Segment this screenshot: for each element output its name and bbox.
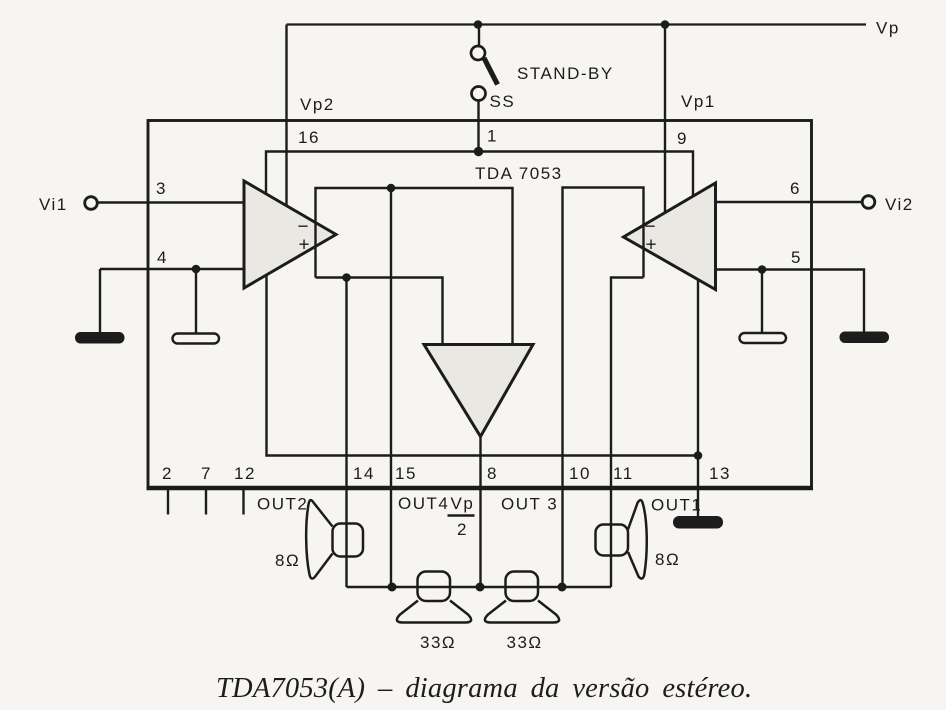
- svg-text:OUT2: OUT2: [257, 495, 308, 514]
- capacitor C1: [195, 269, 197, 334]
- svg-text:12: 12: [234, 464, 256, 483]
- node ground bus / pin 13: [694, 451, 703, 460]
- svg-text:TDA 7053: TDA 7053: [475, 164, 563, 183]
- wire pin4 to ground G1: [99, 269, 101, 333]
- svg-text:1: 1: [487, 127, 498, 146]
- node pin4 / C1 junction: [192, 265, 201, 274]
- svg-text:11: 11: [613, 464, 634, 483]
- wire U2 ground to pin 13: [697, 280, 699, 518]
- svg-text:7: 7: [201, 464, 212, 483]
- svg-text:33Ω: 33Ω: [420, 633, 456, 652]
- wire internal ground bus: [267, 276, 699, 456]
- svg-text:SS: SS: [490, 92, 516, 111]
- svg-text:8Ω: 8Ω: [655, 550, 680, 569]
- wire Vi1 to pin 3 (left amp minus in): [98, 201, 245, 203]
- speaker LS2 (8 ohm left): [306, 500, 363, 579]
- svg-text:13: 13: [709, 464, 731, 483]
- svg-text:10: 10: [569, 464, 591, 483]
- svg-text:8Ω: 8Ω: [275, 551, 300, 570]
- pin 2 stub: [167, 489, 169, 515]
- ground G5 (pin 13): [673, 516, 723, 529]
- speaker LS4 (33 ohm left-center): [397, 572, 471, 623]
- node pin 15 / bus: [388, 583, 397, 592]
- node pin 10 / bus: [558, 583, 567, 592]
- IC bottom edge (thick): [147, 486, 814, 490]
- wire U2 inverting feedback to pin 10: [563, 188, 644, 588]
- wire stand-by bus pin 1 to both amplifiers: [266, 152, 693, 197]
- ground G1: [75, 332, 125, 344]
- svg-text:3: 3: [156, 179, 167, 198]
- wire pin 5: [716, 270, 865, 333]
- op-amp U2 (right): [624, 183, 716, 290]
- node U1 minus / pin15 junction: [387, 184, 396, 193]
- svg-text:5: 5: [791, 248, 802, 267]
- wire Vp1 (pin 9) to right amp: [664, 25, 666, 214]
- svg-text:6: 6: [790, 179, 801, 198]
- node junction Vp rail / Vp1: [661, 20, 670, 29]
- node U1 plus / pin14 junction: [342, 273, 351, 282]
- svg-text:+: +: [299, 235, 310, 256]
- wire pin 14: [345, 278, 347, 588]
- svg-text:33Ω: 33Ω: [507, 633, 543, 652]
- svg-text:OUT4: OUT4: [398, 494, 449, 513]
- pin 7 stub: [205, 489, 207, 515]
- wire pin 6 to Vi2: [716, 201, 863, 203]
- ground G4: [840, 332, 890, 344]
- wire pin 8 output of U3: [479, 437, 481, 588]
- svg-text:2: 2: [162, 464, 173, 483]
- switch S1 (stand-by): [471, 25, 498, 101]
- svg-text:+: +: [646, 235, 657, 256]
- wire bottom bus (pin14 out to pin11 out): [347, 586, 612, 588]
- svg-text:8: 8: [487, 464, 498, 483]
- svg-text:Vp: Vp: [451, 494, 475, 513]
- wire U1 inverting feedback to center amp: [316, 188, 513, 345]
- node pin5 / C2 junction: [758, 265, 767, 274]
- svg-text:Vp1: Vp1: [681, 92, 716, 111]
- wire U1 non-inverting feedback to center amp: [316, 278, 443, 345]
- op-amp U1 (left): [244, 181, 336, 288]
- svg-text:Vp2: Vp2: [300, 95, 335, 114]
- power amp U3 (center): [424, 345, 533, 437]
- node junction Vp rail / stand-by: [474, 20, 483, 29]
- capacitor C2: [761, 270, 763, 334]
- wire Vp rail (top): [287, 23, 867, 25]
- node pin1 junction: [474, 147, 483, 156]
- svg-text:2: 2: [457, 520, 468, 539]
- svg-text:OUT 3: OUT 3: [501, 495, 558, 514]
- svg-text:STAND-BY: STAND-BY: [517, 64, 614, 83]
- svg-text:Vi1: Vi1: [39, 195, 68, 214]
- wire Vp2 (pin 16) to left amp: [285, 25, 287, 210]
- node pin 8 / bus: [476, 583, 485, 592]
- svg-text:16: 16: [298, 128, 320, 147]
- speaker LS3 (33 ohm right-center): [485, 572, 559, 623]
- svg-text:OUT1: OUT1: [651, 496, 702, 515]
- svg-text:15: 15: [395, 464, 417, 483]
- IC boundary TDA7053: [148, 121, 812, 488]
- svg-text:Vi2: Vi2: [885, 195, 914, 214]
- pin 12 stub: [242, 489, 244, 515]
- svg-text:4: 4: [157, 248, 168, 267]
- wire U2 non-inverting feedback to pin 11: [611, 278, 644, 588]
- wire pin 15: [390, 188, 392, 587]
- svg-text:14: 14: [353, 464, 375, 483]
- svg-text:TDA7053(A) – diagrama da versã: TDA7053(A) – diagrama da versão estéreo.: [216, 673, 752, 704]
- wire pin 4: [100, 268, 244, 270]
- speaker LS1 (8 ohm right): [596, 500, 647, 578]
- svg-text:9: 9: [677, 129, 688, 148]
- svg-text:Vp: Vp: [876, 19, 900, 38]
- wire SS switch to pin 1: [477, 101, 479, 152]
